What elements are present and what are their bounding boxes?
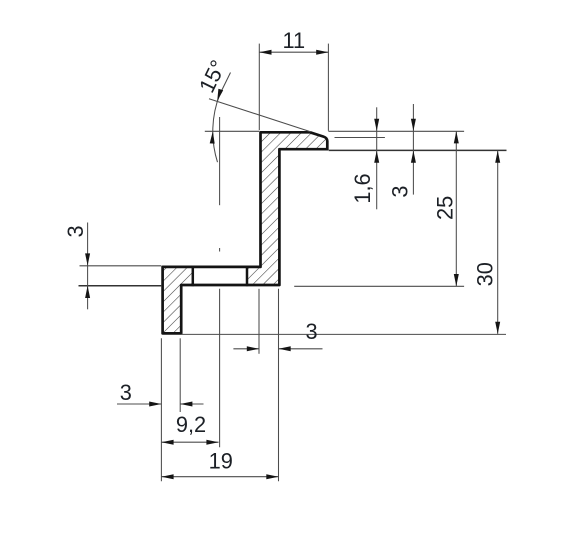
svg-text:3: 3 [305, 319, 317, 344]
svg-text:25: 25 [433, 196, 458, 220]
svg-text:3: 3 [120, 380, 132, 405]
dimension 19: right arrowhead [266, 474, 278, 479]
svg-text:30: 30 [472, 262, 497, 286]
profile outline (Z-section) [163, 132, 328, 333]
dimension 9,2: left arrowhead [161, 440, 173, 445]
svg-text:9,2: 9,2 [176, 412, 206, 437]
dimension 3 (web thickness): right tail [279, 348, 323, 350]
dimension 19: left arrowhead [161, 474, 173, 479]
dimension 3 (web thickness): left arrowhead [247, 346, 259, 351]
slot center line, dash dot [219, 248, 221, 252]
dimension 3 (lip width): right tail [180, 403, 203, 405]
svg-text:11: 11 [282, 28, 305, 53]
angle dimension 15: upper arrowhead [217, 89, 223, 101]
dimension 3 (lip width): right arrowhead [180, 402, 192, 407]
extension line: web left edge, below [258, 289, 260, 354]
extension line: bottom flange bottom, right side [294, 285, 464, 287]
angle dimension 15: lower arrowhead [210, 131, 215, 143]
extension line: lip left edge, below [160, 338, 162, 481]
angle dimension 15: arc [213, 94, 220, 162]
dimension 3 (web thickness): left tail [233, 348, 259, 350]
dimension 1,6: upper arrowhead [374, 119, 379, 131]
dimension 3 (web thickness): right arrowhead [279, 346, 291, 351]
extension line: lip bottom, right side [181, 333, 506, 335]
dimension 11: extension left [258, 44, 260, 131]
slot center line, upper segment [219, 117, 221, 205]
dimension 11: left arrowhead [259, 50, 271, 55]
dimension 25: lower arrowhead [454, 274, 459, 286]
svg-text:19: 19 [209, 448, 233, 473]
extension line: bottom flange bottom, left side [79, 285, 162, 287]
dimension 11: extension right [327, 44, 329, 131]
extension line: top flange bottom, to the right [329, 149, 507, 151]
dimension 3 (flange thickness): dimension line [412, 104, 414, 195]
extension line: flange top, right side [328, 130, 464, 132]
dimension 3 (lip width): left tail [117, 403, 161, 405]
svg-text:1,6: 1,6 [350, 173, 375, 203]
dimension 30: upper arrowhead [495, 151, 500, 163]
dimension 3 (flange thickness): lower arrowhead [411, 151, 416, 163]
svg-text:15°: 15° [194, 56, 231, 97]
slot left edge [192, 266, 195, 286]
dimension 19: dimension line [161, 476, 278, 478]
dimension 3 (lip width): left arrowhead [149, 402, 161, 407]
dimension 11: right arrowhead [316, 50, 328, 55]
dimension 3 left: upper arrowhead [85, 253, 90, 265]
angle dimension 15: tail to text [220, 73, 231, 95]
hatched section fill (profile minus slot) [163, 132, 328, 333]
dimension 30: dimension line [497, 151, 499, 334]
slot right edge [246, 266, 249, 286]
dimension 9,2: right arrowhead [206, 440, 218, 445]
dimension 25: upper arrowhead [454, 131, 459, 143]
dimension 30: lower arrowhead [495, 322, 500, 334]
dimension 3 (flange thickness): upper arrowhead [411, 119, 416, 131]
dimension 1,6: dimension line [376, 107, 378, 209]
dimension 11: dimension line [259, 51, 328, 53]
dimension 1,6: lower arrowhead [374, 151, 379, 163]
angle dimension 15: slanted construction line [209, 99, 311, 132]
extension line: lip right edge, below [179, 338, 181, 412]
svg-text:3: 3 [387, 186, 412, 198]
dimension 25: dimension line [455, 131, 457, 286]
extension line: web right edge, below (also for 19) [278, 289, 280, 482]
extension line: flange tip top [335, 137, 385, 139]
dimension 9,2: dimension line [161, 441, 218, 443]
dimension 3 left: lower arrowhead [85, 286, 90, 298]
extension line: bottom flange top, left side [80, 265, 162, 267]
slot center line, lower segment [219, 289, 221, 448]
svg-text:3: 3 [63, 225, 88, 237]
extension line: flange top, left side [205, 130, 259, 132]
dimension 3 (bottom flange thickness, left): dimension line [87, 223, 89, 310]
